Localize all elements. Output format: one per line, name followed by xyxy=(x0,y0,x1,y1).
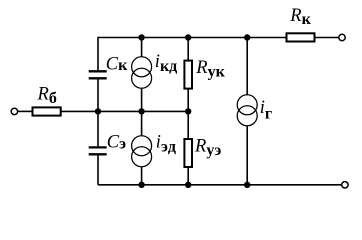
wire R_b right lead xyxy=(61,110,98,112)
node dot bottom rail at R_ue xyxy=(185,182,191,188)
wire R_uk top lead xyxy=(187,38,189,61)
wire i_ed bottom lead xyxy=(141,167,143,185)
wire left vertical middle xyxy=(97,80,99,147)
wire i_kd top lead xyxy=(141,38,143,57)
wire i_kd to i_ed xyxy=(141,88,143,136)
resistor R_b body xyxy=(33,107,61,115)
label R_ue xyxy=(194,137,221,159)
label C_k xyxy=(106,54,128,74)
wire R_ue bottom lead xyxy=(187,167,189,185)
label i_g xyxy=(260,98,272,122)
wire left vertical lower xyxy=(97,155,99,184)
terminal base input xyxy=(11,108,17,114)
node dot bottom rail at i_g xyxy=(244,182,250,188)
wire i_g top lead xyxy=(246,38,248,95)
node dot top rail at i_g xyxy=(244,34,250,40)
terminal emitter output xyxy=(342,182,348,188)
label R_b xyxy=(37,85,57,107)
node dot top rail at R_uk xyxy=(185,34,191,40)
resistor R_k body xyxy=(287,33,315,41)
label R_uk xyxy=(195,58,225,80)
node dot middle at R_u xyxy=(185,108,191,114)
label R_k xyxy=(289,6,311,28)
capacitor C_e plates xyxy=(89,147,107,154)
svg-text:Cк: Cк xyxy=(106,54,128,74)
node dot base junction xyxy=(95,108,101,114)
wire left vertical upper xyxy=(97,37,99,70)
node dot top rail at i_kd xyxy=(138,34,144,40)
wire R_uk to R_ue xyxy=(187,89,189,139)
wire i_g bottom lead xyxy=(246,126,248,185)
label C_e xyxy=(107,132,126,152)
current source i_ed xyxy=(132,136,152,167)
resistor R_ue body xyxy=(184,139,192,167)
label i_ed xyxy=(156,133,177,156)
terminal collector output xyxy=(339,34,345,40)
node dot middle at i sources xyxy=(138,108,144,114)
capacitor C_k plates xyxy=(89,71,107,78)
resistor R_uk body xyxy=(184,61,192,89)
wire top rail xyxy=(98,37,287,39)
label i_kd xyxy=(155,52,177,75)
wire R_b left lead xyxy=(18,110,33,112)
svg-text:Cэ: Cэ xyxy=(107,132,126,152)
wire bottom rail xyxy=(98,184,342,186)
wire middle horizontal xyxy=(98,110,188,112)
current source i_kd xyxy=(132,57,152,88)
node dot bottom rail at i_ed xyxy=(138,182,144,188)
wire R_k right lead xyxy=(315,37,339,39)
current source i_g xyxy=(237,95,257,126)
